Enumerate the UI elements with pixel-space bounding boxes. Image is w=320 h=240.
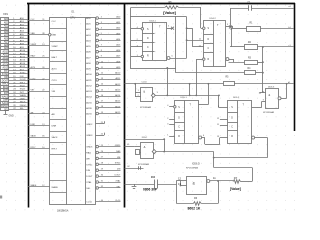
connector XP1 cell divider 3 [1, 27, 9, 29]
connector XP1 cell divider 19 [1, 78, 9, 80]
connector XP1 pin AD9 wire [9, 48, 28, 50]
svg-text:S: S [178, 107, 180, 109]
CPU left column divider [50, 119, 67, 121]
crystal bars [138, 166, 140, 170]
connector XP1 cell divider 5 [1, 33, 9, 35]
CPU pin AD9 wire [99, 68, 121, 70]
svg-text:6: 6 [172, 55, 174, 57]
flip-flop DD4.1 C input stub [131, 46, 142, 48]
CPU pin XTAL bubble [96, 181, 99, 184]
connector XP1 cell divider 14 [1, 62, 9, 64]
svg-text:R2: R2 [248, 42, 252, 44]
flip-flop DD4.2 Q output wire [226, 26, 233, 28]
svg-text:&: & [143, 89, 145, 93]
CPU left column divider [50, 142, 67, 144]
gate DD6.D output bubble [207, 180, 210, 183]
resistor R8 [165, 6, 179, 9]
connector XP1 pin AD2 wire [9, 25, 28, 27]
CPU pin AD0 wire [99, 18, 121, 20]
svg-text:DD5C: DD5C [142, 137, 148, 139]
wire DD4.2 R to DD6.A output node [196, 59, 198, 95]
svg-text:C3: C3 [151, 175, 155, 179]
flip-flop DD5.1 S stub [169, 106, 173, 108]
connector XP1 pin SYNC wire [9, 73, 28, 75]
svg-text:1: 1 [167, 135, 169, 137]
svg-text:AD10: AD10 [3, 50, 9, 53]
connector XP1 cell divider 27 [1, 104, 9, 106]
CPU pin DNR wire [28, 125, 50, 127]
svg-text:CLC: CLC [31, 19, 36, 21]
connector XP1 pin INIT wire [9, 93, 28, 95]
gate DD6.A feed junction [134, 83, 136, 85]
CPU pin RPLY wire [28, 148, 50, 150]
svg-text:D1: D1 [72, 12, 76, 14]
flip-flop DD4.2 cell divider [204, 52, 213, 54]
connector XP1 pin AD4 wire [9, 32, 28, 34]
svg-text:AD13: AD13 [115, 88, 121, 91]
wire DD4.1 feedback right vertical [186, 17, 188, 58]
svg-text:DMGO: DMGO [20, 105, 27, 107]
connector XP1 cell divider 26 [1, 101, 9, 103]
svg-text:RPLY: RPLY [20, 82, 26, 84]
svg-text:15: 15 [101, 89, 104, 91]
wire DD5.1 Qbar to DD5.2 R [219, 138, 221, 145]
svg-text:AD2: AD2 [86, 28, 91, 31]
flip-flop DD5.1 body [175, 101, 199, 144]
svg-text:AD10: AD10 [20, 49, 26, 52]
CPU pin WE wire [99, 158, 121, 160]
flip-flop DD5.1 cell divider [175, 122, 185, 124]
svg-text:31: 31 [101, 180, 104, 182]
svg-text:AD15: AD15 [86, 113, 92, 116]
flip-flop DD5.1 Qbar wire [202, 137, 205, 139]
svg-text:AD15: AD15 [115, 100, 121, 103]
flip-flop DD4.2 cell divider [204, 34, 213, 36]
wire cross vertical at 189.6 [189, 84, 191, 96]
CPU pin WAKE wire [28, 186, 50, 188]
CPU pin AD15 wire [99, 113, 121, 115]
svg-text:DD4.2: DD4.2 [210, 18, 217, 20]
svg-text:T: T [159, 26, 161, 29]
svg-text:DD6.D: DD6.D [193, 163, 200, 166]
svg-text:DOUT: DOUT [86, 176, 93, 178]
svg-text:2: 2 [101, 16, 103, 18]
wire DD4.2 Qbar to R3 [233, 59, 235, 62]
CPU pin DIN wire [99, 170, 121, 172]
svg-text:8602 1K: 8602 1K [188, 206, 201, 210]
CPU pin AD15 wire [99, 102, 121, 104]
svg-text:AD15: AD15 [115, 111, 121, 114]
connector XP1 pin WAKE wire [9, 96, 28, 98]
connector XP1 pin AD7 wire [9, 41, 28, 43]
CPU pin RAS wire [99, 152, 121, 154]
svg-text:AD1: AD1 [86, 23, 91, 26]
connector XP1 cell divider 15 [1, 65, 9, 67]
svg-text:KP1533HA3: KP1533HA3 [140, 106, 152, 109]
svg-text:S: S [231, 107, 233, 109]
svg-text:AD12: AD12 [115, 83, 121, 86]
CPU body [50, 18, 96, 205]
svg-text:GND5: GND5 [115, 145, 121, 147]
flip-flop DD5.1 Qbar bubble [199, 136, 202, 139]
flip-flop DD5.1 S bubble [174, 106, 176, 108]
CPU pin AD3 bubble [96, 34, 99, 37]
flip-flop DD5.1 cell divider [175, 130, 185, 132]
connector XP1 cell divider 4 [1, 30, 9, 32]
resistor R3 [245, 61, 258, 65]
gate DD6.C input 1 stub [134, 146, 141, 148]
svg-text:RPLY: RPLY [31, 147, 37, 149]
CPU pin GND2 stub [96, 123, 104, 125]
connector XP1 cell divider 13 [1, 59, 9, 61]
connector XP1 pin AD0 wire [9, 19, 28, 21]
CPU pin SACK wire [28, 137, 50, 139]
connector XP1 cell divider 24 [1, 94, 9, 96]
capacitor C1 wire [231, 8, 248, 10]
svg-text:11: 11 [217, 124, 220, 126]
svg-text:IRQ3: IRQ3 [20, 89, 26, 91]
svg-text:GND3: GND3 [86, 135, 93, 137]
connector XP1 pin AD1 wire [9, 22, 28, 24]
connector XP1 cell divider 9 [1, 46, 9, 48]
wire DD6.C output down [213, 152, 215, 168]
resistor R6 wire [177, 203, 194, 205]
connector XP1 pin SACK wire [9, 102, 28, 104]
svg-text:RAS: RAS [86, 152, 91, 155]
flip-flop DD5.2 C stub [220, 125, 228, 127]
svg-text:CLT0: CLT0 [52, 80, 58, 82]
CPU pin AD5 wire [99, 46, 121, 48]
svg-text:AD15: AD15 [3, 66, 9, 69]
wire gate input split [177, 180, 181, 182]
CPU pin AD10 wire [99, 74, 121, 76]
svg-text:AD15: AD15 [86, 101, 92, 104]
CPU pin AD16 bubble [96, 107, 99, 110]
wire DD4.1 feedback top [176, 16, 187, 18]
connector XP1 pin AD13 wire [9, 61, 28, 63]
svg-text:R7: R7 [234, 176, 238, 180]
resistor R2 [245, 45, 258, 50]
CPU pin AD11 wire [99, 79, 121, 81]
flip-flop DD4.1 inner column [152, 23, 154, 60]
svg-text:AD6: AD6 [4, 37, 9, 40]
CPU pin SEL bubble [96, 187, 99, 190]
CPU pin AD6 wire [99, 51, 121, 53]
flip-flop DD4.1 cell divider [142, 42, 154, 44]
connector XP1 cell divider 18 [1, 75, 9, 77]
connector XP1 pin DMGO wire [9, 106, 28, 108]
svg-text:AD5: AD5 [116, 44, 121, 47]
flip-flop DD4.1 Qbar bubble [167, 57, 170, 60]
gate DD6.B output vertical to long wire [286, 84, 288, 99]
flip-flop DD4.2 R input stub [196, 59, 202, 61]
svg-text:VSMP: VSMP [31, 44, 37, 46]
CPU pin AD2 wire [99, 29, 121, 31]
gate DD6.B input 2 stub [261, 101, 265, 103]
connector XP1 cell divider 11 [1, 53, 9, 55]
svg-text:DNR: DNR [31, 124, 36, 126]
svg-text:AD1: AD1 [4, 21, 9, 24]
svg-text:11: 11 [259, 93, 262, 95]
connector XP1 pin AD8 wire [9, 44, 28, 46]
gate DD6.B body [266, 89, 279, 109]
connector XP1 cell divider 1 [1, 20, 9, 22]
gate DD6.A feed vertical [135, 84, 137, 97]
svg-text:SEL: SEL [86, 188, 91, 190]
CPU pin AD12 bubble [96, 84, 99, 87]
flip-flop DD4.2 cell divider [204, 43, 213, 45]
svg-text:AD15: AD15 [20, 65, 26, 68]
CPU right pin-name column [85, 18, 87, 205]
svg-text:VIR: VIR [52, 91, 56, 93]
flip-flop DD5.1 Q output wire [199, 104, 209, 106]
CPU pin AD6 bubble [96, 50, 99, 53]
connector XP1 pin AD6 wire [9, 38, 28, 40]
svg-text:SACK: SACK [31, 135, 37, 138]
wire C3 to gate input [157, 184, 176, 186]
CPU pin AD4 bubble [96, 39, 99, 42]
svg-text:R4: R4 [248, 68, 252, 70]
CPU left column divider [50, 41, 67, 43]
svg-text:GND: GND [9, 116, 14, 118]
svg-text:WAKE: WAKE [20, 94, 27, 97]
CPU pin DOUT bubble [96, 175, 99, 178]
svg-text:AD7: AD7 [20, 39, 25, 42]
gate DD6.A output wire [155, 95, 219, 97]
svg-text:KP1533HA3: KP1533HA3 [186, 166, 199, 169]
svg-text:AD12: AD12 [20, 56, 26, 59]
wire R8 right to DD4.2 [200, 7, 202, 28]
svg-text:2: 2 [167, 118, 169, 120]
gate DD6.A input 2 stub [135, 96, 141, 98]
svg-text:AD9: AD9 [86, 68, 91, 71]
svg-text:DOUT: DOUT [2, 80, 9, 82]
flip-flop DD4.2 R input bubble [203, 58, 205, 60]
flip-flop DD4.2 body [204, 21, 226, 67]
resistor R4 wire [176, 72, 245, 74]
gate DD6.B output wire [281, 98, 287, 100]
gate DD6.D input 12 stub [181, 180, 187, 182]
svg-text:&: & [144, 145, 146, 149]
ground symbol below connector [5, 111, 7, 114]
svg-text:RAS: RAS [116, 150, 121, 153]
flip-flop DD4.2 Qbar bubble [226, 58, 229, 61]
svg-text:D: D [178, 118, 180, 120]
flip-flop DD5.2 Qbar bubble [252, 136, 255, 139]
svg-text:C: C [147, 47, 149, 49]
svg-text:GND2: GND2 [86, 124, 93, 126]
CPU pin VBB wire [28, 34, 49, 36]
page corner mark bottom-left [0, 196, 2, 199]
CPU pin AD10 bubble [96, 73, 99, 76]
gate DD6.B output bubble [278, 97, 281, 100]
svg-text:R6: R6 [194, 197, 198, 200]
svg-text:WE: WE [86, 158, 90, 160]
gate DD6.C input resistor box [136, 150, 140, 155]
connector XP1 pin AD14 wire [9, 64, 28, 66]
gate DD6.A input 1 stub [135, 92, 141, 94]
ground symbol at C3 [134, 184, 136, 186]
gate DD6.D input 13 stub [181, 185, 187, 187]
flip-flop DD5.1 R stub [169, 136, 175, 138]
wire R2-R3-R4 vertical [262, 47, 264, 92]
CPU pin GND3 stub [96, 135, 104, 137]
connector XP1 cell divider 8 [1, 43, 9, 45]
connector XP1 pin IRQ3 wire [9, 90, 28, 92]
svg-text:AD0: AD0 [116, 15, 121, 18]
svg-text:1801BM1A: 1801BM1A [57, 209, 69, 212]
svg-text:2: 2 [138, 95, 139, 97]
CPU pin AD7 bubble [96, 56, 99, 59]
svg-text:DIN: DIN [117, 169, 121, 171]
svg-text:VIR: VIR [31, 90, 35, 92]
CPU pin AD9 bubble [96, 67, 99, 70]
svg-text:&: & [268, 93, 270, 97]
connector XP1 pin AD3 wire [9, 28, 28, 30]
svg-text:DD6.3: DD6.3 [268, 86, 275, 88]
flip-flop DD4.1 body [143, 23, 167, 61]
flip-flop DD4.2 D input wire [187, 40, 204, 42]
connector XP1 pin DOUT wire [9, 80, 28, 82]
svg-text:[Value]: [Value] [163, 10, 176, 15]
svg-text:5: 5 [168, 26, 170, 28]
svg-text:12: 12 [178, 177, 181, 181]
gate DD6.C body [141, 143, 154, 159]
wire R7 right vertical [252, 168, 254, 182]
svg-text:XP1: XP1 [3, 12, 8, 16]
svg-text:CL: CL [127, 144, 130, 146]
flip-flop DD4.1 outer wire loop [131, 17, 176, 69]
svg-text:DOUT: DOUT [20, 79, 27, 81]
svg-text:AD14: AD14 [86, 96, 92, 99]
wire loop corner to R4 [175, 68, 177, 73]
junction DD6.A output to DD4.2 R [195, 95, 197, 97]
svg-text:SYNC: SYNC [20, 73, 26, 75]
flip-flop DD5.2 D stub [220, 119, 228, 121]
CPU pin AD16 wire [99, 107, 121, 109]
wire long horizontal right part [234, 83, 294, 85]
connector XP1 pin AD12 wire [9, 57, 28, 59]
svg-text:AD10: AD10 [86, 73, 92, 76]
CPU left column divider [50, 61, 67, 63]
CPU pin AD5 bubble [96, 45, 99, 48]
CPU pin AR wire [28, 113, 50, 115]
CPU pin AD13 bubble [96, 90, 99, 93]
svg-text:AD16: AD16 [86, 107, 92, 110]
flip-flop DD5.1 Q to long wire vertical [208, 84, 210, 105]
gate DD6.B input 2 wire [261, 102, 263, 108]
flip-flop DD4.1 Q output mark [171, 27, 174, 30]
CPU pin AD8 bubble [96, 62, 99, 65]
CPU pin HALT wire [28, 57, 50, 59]
CPU pin SEL wire [99, 187, 121, 189]
CPU left column divider [50, 192, 67, 194]
CPU pin XTAL wire [99, 182, 121, 184]
gate DD6.A output diamond [151, 93, 155, 97]
svg-text:0806 30P: 0806 30P [143, 188, 158, 192]
wire C3 from border [125, 184, 155, 186]
flip-flop DD5.2 body [228, 101, 252, 144]
CPU pin AD8 wire [99, 62, 121, 64]
CPU pin AD1 bubble [96, 22, 99, 25]
svg-text:AD6: AD6 [86, 51, 91, 54]
svg-text:SYNC: SYNC [115, 163, 121, 165]
svg-text:AD14: AD14 [115, 94, 121, 97]
svg-text:ALT0: ALT0 [52, 68, 58, 71]
svg-text:R: R [208, 59, 210, 61]
svg-text:AD3: AD3 [20, 27, 25, 30]
svg-text:IRQ2: IRQ2 [20, 85, 26, 87]
svg-text:AR: AR [52, 113, 55, 116]
flip-flop DD4.1 cell divider [142, 33, 154, 35]
flip-flop DD5.2 cell divider [228, 122, 238, 124]
svg-text:R: R [147, 56, 149, 58]
connector XP1 cell divider 10 [1, 49, 9, 51]
svg-text:3: 3 [157, 92, 158, 94]
svg-text:&: & [193, 181, 196, 185]
wire R6 right vertical [218, 181, 220, 204]
flip-flop DD4.2 Q output mark [229, 25, 232, 28]
svg-text:C: C [178, 126, 180, 128]
svg-text:12: 12 [217, 118, 220, 120]
svg-text:HALT: HALT [31, 55, 37, 58]
CPU pin WE bubble [96, 157, 99, 160]
svg-text:AD11: AD11 [86, 79, 92, 82]
gate DD6.C output wire [156, 151, 214, 153]
svg-text:[Value]: [Value] [230, 187, 241, 191]
svg-text:AD10: AD10 [115, 72, 121, 75]
wire border to crystal [125, 168, 144, 170]
svg-text:SACK: SACK [52, 136, 58, 139]
svg-text:VBB: VBB [31, 33, 36, 35]
CPU left column divider [50, 28, 67, 30]
flip-flop DD4.1 R input bubble [141, 55, 143, 57]
svg-text:R5: R5 [226, 76, 230, 78]
connector XP1 pin AD11 wire [9, 54, 28, 56]
CPU left pin-name column [66, 18, 68, 205]
svg-text:R3: R3 [248, 57, 252, 59]
gate DD6.D output wire [210, 180, 233, 182]
svg-text:CLC0: CLC0 [115, 200, 121, 202]
svg-text:CLC0: CLC0 [86, 202, 92, 204]
flip-flop DD5.2 Q output wire to DD6.B [251, 107, 253, 109]
svg-text:AD11: AD11 [20, 52, 26, 55]
CPU pin AD1 wire [99, 23, 121, 25]
flip-flop DD4.2 inner column [213, 20, 215, 66]
flip-flop DD4.1 R input stub [131, 56, 141, 58]
connector XP1 cell divider 12 [1, 56, 9, 58]
svg-text:D: D [208, 39, 210, 41]
svg-text:T: T [243, 104, 245, 107]
CPU pin AD15 bubble [96, 112, 99, 115]
CPU pin ALT0 wire [28, 68, 50, 70]
connector XP1 cell divider 2 [1, 24, 9, 26]
CPU pin CLC0 wire [96, 201, 121, 203]
CPU pin DIN bubble [96, 169, 99, 172]
wire DD4.2 Q up to C1 [230, 8, 232, 27]
svg-text:VBB: VBB [52, 35, 57, 37]
connector XP1 cell divider 6 [1, 36, 9, 38]
svg-text:DMR: DMR [20, 98, 25, 100]
flip-flop DD4.1 S input stub [131, 28, 141, 30]
svg-text:C: C [208, 48, 210, 50]
CPU left column divider [50, 180, 67, 182]
svg-text:AD13: AD13 [86, 90, 92, 93]
flip-flop DD4.1 cell divider [142, 51, 154, 53]
wire row1 vertical down [164, 139, 166, 152]
CPU left column divider [50, 108, 67, 110]
connector XP1 pin DMR wire [9, 99, 28, 101]
